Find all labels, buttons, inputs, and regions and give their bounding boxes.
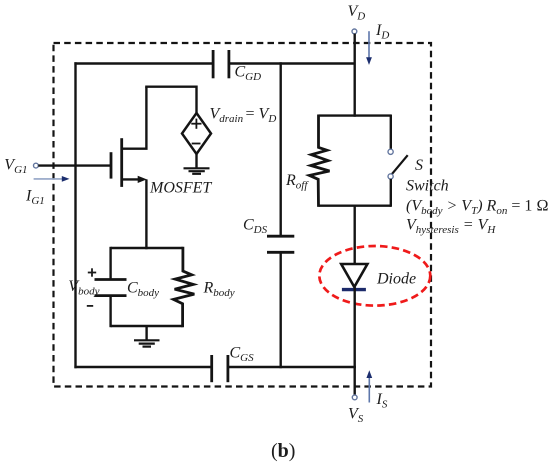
wire: C_GD to V_D node xyxy=(229,62,355,64)
wire: C_DS branch upper xyxy=(280,62,282,236)
svg-text:(b): (b) xyxy=(271,440,295,462)
svg-text:CGS: CGS xyxy=(230,344,255,364)
capacitor C_DS xyxy=(267,236,294,252)
wire: C_body lower lead xyxy=(109,296,111,328)
svg-text:VS: VS xyxy=(348,405,364,425)
wire: switch box to diode xyxy=(354,206,356,264)
wire: body box to ground xyxy=(145,326,147,340)
body network box top wire xyxy=(111,247,183,249)
wire: drain to dependent source xyxy=(145,85,196,87)
dashed boundary box xyxy=(54,43,432,387)
minus sign of V_body xyxy=(87,305,93,307)
svg-text:Rbody: Rbody xyxy=(203,280,235,300)
svg-text:(Vbody > VT) Ron = 1 Ω: (Vbody > VT) Ron = 1 Ω xyxy=(406,197,549,217)
diode D1 xyxy=(341,264,367,287)
svg-text:CDS: CDS xyxy=(243,217,268,237)
MOSFET source lead with arrow xyxy=(122,176,147,183)
svg-text:= VD: = VD xyxy=(246,106,277,126)
switch box top wire xyxy=(319,114,392,116)
svg-text:Switch: Switch xyxy=(406,177,449,194)
current arrow I_G1 xyxy=(34,176,70,182)
current arrow I_S xyxy=(366,370,372,402)
wire: gate input xyxy=(38,164,111,166)
svg-text:Vdrain: Vdrain xyxy=(210,106,244,126)
wire: diamond to ground xyxy=(195,154,197,168)
svg-text:VD: VD xyxy=(348,3,366,23)
capacitor C_GS xyxy=(212,355,228,382)
switch box bottom wire xyxy=(319,204,392,206)
dependent source plus sign xyxy=(191,119,201,129)
svg-text:MOSFET: MOSFET xyxy=(149,179,212,196)
wire: source down to body network xyxy=(145,179,147,249)
wire: bottom gate bus (to C_GS left plate) xyxy=(74,366,211,368)
MOSFET drain lead xyxy=(122,87,147,149)
svg-text:VG1: VG1 xyxy=(4,157,27,177)
wire: C_GS right plate to V_S node xyxy=(228,366,356,368)
wire: C_body upper lead xyxy=(109,247,111,280)
dependent source V_drain (diamond) xyxy=(182,113,211,154)
svg-text:Vhysteresis = VH: Vhysteresis = VH xyxy=(406,217,496,237)
terminal V_S xyxy=(352,395,357,400)
resistor R_body xyxy=(174,247,195,327)
body network box bottom wire xyxy=(111,325,183,327)
plus sign of V_body xyxy=(88,268,96,276)
svg-text:Vbody: Vbody xyxy=(68,278,99,298)
ground below dependent source xyxy=(184,168,210,174)
svg-text:CGD: CGD xyxy=(235,64,262,84)
switch S (wire, contacts, blade) xyxy=(388,115,408,207)
terminal V_G1 xyxy=(34,163,39,168)
svg-text:ID: ID xyxy=(375,22,389,42)
ground below body network xyxy=(134,340,160,346)
resistor R_off xyxy=(309,115,329,207)
svg-text:Diode: Diode xyxy=(376,270,416,287)
wire: C_DS branch lower xyxy=(280,252,282,368)
dependent source minus sign xyxy=(192,143,201,145)
wire: left vertical gate bus xyxy=(74,62,76,368)
svg-text:S: S xyxy=(415,157,423,174)
svg-text:IS: IS xyxy=(376,391,388,411)
wire: V_D down to switch box xyxy=(354,34,356,117)
svg-text:IG1: IG1 xyxy=(25,187,45,207)
capacitor C_body xyxy=(95,280,127,296)
terminal V_D xyxy=(352,29,357,34)
wire: dependent source stem xyxy=(195,86,197,114)
svg-text:Cbody: Cbody xyxy=(127,280,159,300)
MOSFET Q1 gate bar xyxy=(110,152,113,178)
MOSFET Q1 channel bar xyxy=(120,138,123,187)
red highlight ellipse around diode xyxy=(319,246,430,306)
capacitor C_GD xyxy=(213,50,229,78)
current arrow I_D xyxy=(366,31,372,65)
wire: top gate bus (to C_GD left plate) xyxy=(74,62,213,64)
wire: diode to V_S terminal xyxy=(354,287,356,395)
diode cathode bar xyxy=(342,288,366,291)
